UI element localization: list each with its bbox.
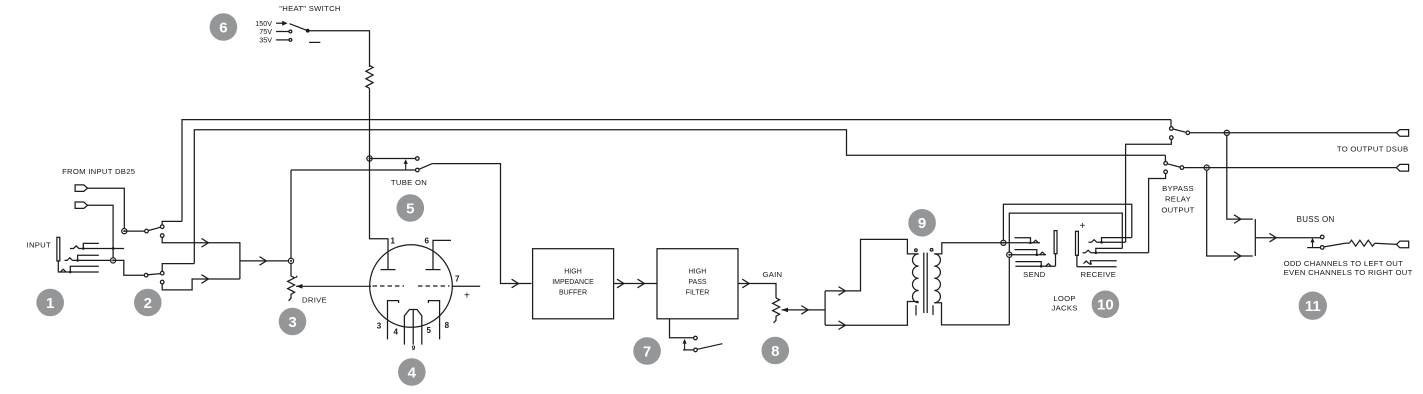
resistor R out [1349, 240, 1374, 246]
wire drive pot top to tube-on lower line [290, 170, 292, 258]
wire 2b lower throw signal path [162, 279, 240, 290]
buss-on actuator arrow [1312, 241, 1314, 248]
send jack tip normal stub [1015, 238, 1031, 243]
tube grid dashes left [373, 285, 405, 287]
heat switch 35V lead wire [276, 39, 289, 41]
tube-on switch lower contact [416, 168, 420, 172]
wire bypass top lower throw to receive tip [1126, 139, 1172, 242]
svg-text:INPUT: INPUT [27, 241, 51, 250]
svg-text:HIGH: HIGH [689, 268, 707, 275]
send jack tip contact line [1003, 242, 1040, 244]
connector DB25 pin 2 [75, 202, 87, 208]
svg-text:6: 6 [425, 237, 430, 246]
send jack tip caret [1033, 240, 1038, 243]
wire arm to resistor [1345, 242, 1349, 244]
arrow merge output [1269, 233, 1276, 242]
hpf switch arm [697, 344, 722, 350]
bypass top switch arm [1173, 129, 1186, 132]
svg-text:BUSS ON: BUSS ON [1297, 215, 1335, 224]
send jack ring contact line [1009, 254, 1046, 256]
wire bypass top output [1190, 132, 1397, 134]
relay switch 2a arm [148, 227, 160, 230]
relay switch 2b arm [148, 274, 161, 275]
svg-text:8: 8 [445, 321, 450, 330]
node A junction circle [122, 229, 127, 234]
wire 2a upper throw to bus 1 [162, 221, 182, 225]
wire bypass bottom lower throw to receive ring [1149, 174, 1166, 253]
buss-on switch arm [1324, 243, 1345, 247]
bypass bottom switch upper throw contact [1164, 162, 1168, 166]
node F junction circle [1204, 165, 1209, 170]
svg-text:7: 7 [455, 275, 460, 284]
numbered circle 9 [908, 209, 936, 237]
wire hpf to gain pot [738, 284, 776, 299]
arrow on merged signal [260, 257, 267, 266]
receive jack tip caret [1091, 240, 1096, 243]
transformer shield lead left [915, 305, 917, 315]
receive jack sleeve normal stub [1091, 261, 1117, 264]
wire bus1 down to bypass top switch [1170, 120, 1172, 127]
receive jack ring contact line [1083, 252, 1149, 254]
svg-text:BYPASS: BYPASS [1162, 184, 1194, 193]
receive jack body [1076, 231, 1079, 255]
receive jack tip normal stub [1102, 238, 1132, 243]
wire bus2 down to bypass bottom switch [1164, 155, 1166, 161]
tube heater (pins 4,5) [404, 310, 421, 345]
wire 2b upper throw to bus 2 [162, 264, 194, 272]
wire heater line to tube pin 1 [370, 159, 389, 270]
svg-text:7: 7 [643, 343, 651, 360]
send jack ring caret [1040, 252, 1045, 255]
heat switch 75V contact [289, 30, 292, 33]
numbered circle 7 [633, 337, 661, 365]
connector DB25 pin 1 [75, 185, 87, 192]
svg-text:4: 4 [394, 328, 399, 337]
tube-on actuator arrow [405, 163, 407, 170]
svg-text:5: 5 [406, 200, 414, 217]
wire bus 1 [182, 120, 1171, 222]
wire 2a lower throw signal path [162, 237, 240, 279]
resistor R heat [366, 66, 373, 89]
svg-text:TO OUTPUT DSUB: TO OUTPUT DSUB [1337, 144, 1409, 153]
relay switch 2a lower throw contact [160, 234, 164, 238]
svg-text:BUFFER: BUFFER [559, 289, 587, 296]
numbered circle 3 [279, 308, 307, 336]
svg-text:1: 1 [391, 237, 396, 246]
numbered circle 2 [134, 289, 162, 317]
input jack sleeve normal stub [70, 266, 99, 272]
wire drive wiper to tube grid [296, 285, 371, 287]
input jack body [57, 237, 60, 261]
wire splitter vertical [824, 291, 826, 325]
input jack sleeve contact caret [60, 269, 66, 272]
node B junction circle [111, 258, 116, 263]
wire secondary top to node C [934, 243, 1003, 254]
arrow 2 between blocks [638, 279, 645, 288]
wire hpf switch drop [670, 319, 694, 338]
svg-text:10: 10 [1097, 297, 1114, 314]
svg-text:IMPEDANCE: IMPEDANCE [552, 279, 594, 286]
transformer core [923, 253, 925, 313]
potentiometer GAIN [773, 298, 780, 323]
wire node D up and over to receive ring normal [1009, 213, 1122, 252]
arrow on primary top feed [839, 287, 846, 296]
wire heat switch to resistor [308, 31, 370, 67]
input jack sleeve contact dot [69, 271, 72, 274]
transformer primary phasing dot [915, 249, 918, 252]
svg-text:3: 3 [288, 314, 296, 331]
receive jack ring normal stub [1096, 248, 1123, 252]
tube-on switch upper line [370, 158, 416, 160]
bypass top switch upper throw contact [1170, 127, 1174, 131]
tube-on switch upper contact [416, 157, 420, 161]
wire merged signal to drive pot [240, 260, 289, 262]
receive jack tip contact line [1089, 241, 1126, 243]
arrow on 2b signal path [202, 275, 209, 284]
connector DSUB out pin 1 [1396, 130, 1408, 137]
numbered circle 6 [210, 13, 238, 41]
input jack ring normal stub [78, 255, 99, 260]
svg-text:ODD CHANNELS TO LEFT OUT: ODD CHANNELS TO LEFT OUT [1284, 259, 1404, 268]
drive pot top ccw tick [296, 276, 298, 278]
svg-text:5: 5 [427, 326, 432, 335]
relay switch 2a upper throw contact [160, 225, 164, 229]
svg-text:"HEAT" SWITCH: "HEAT" SWITCH [279, 4, 340, 13]
svg-text:1: 1 [46, 295, 54, 312]
send jack sleeve contact dot [1040, 265, 1043, 268]
svg-text:3: 3 [377, 322, 382, 331]
tube grid dashes right [418, 285, 450, 287]
svg-text:JACKS: JACKS [1052, 304, 1078, 313]
block HIGH PASS FILTER [657, 249, 738, 319]
svg-text:8: 8 [771, 343, 779, 360]
svg-text:11: 11 [1305, 298, 1321, 315]
tube-on switch arm [419, 164, 432, 170]
svg-text:TUBE ON: TUBE ON [391, 178, 427, 187]
svg-text:PASS: PASS [688, 279, 706, 286]
input jack tip contact dot [82, 247, 85, 250]
node drive junction circle [288, 258, 293, 263]
send jack sleeve line [1015, 265, 1055, 267]
input jack ring contact dot [76, 259, 79, 262]
receive jack sleeve line [1077, 266, 1117, 268]
numbered circle 10 [1092, 291, 1120, 319]
block HIGH IMPEDANCE BUFFER [533, 249, 614, 319]
hpf switch actuator arrow [684, 342, 686, 349]
svg-text:OUTPUT: OUTPUT [1161, 205, 1194, 214]
tube plate 2 (pin 6) [426, 269, 441, 271]
heat switch unused position dash [309, 41, 320, 43]
wire node E down to buss merge top [1227, 135, 1253, 219]
buss merge bar [1254, 219, 1256, 256]
arrow 1 between blocks [617, 279, 624, 288]
receive jack tip contact dot [1100, 241, 1103, 244]
tube-on junction circle [367, 156, 372, 161]
svg-text:6: 6 [219, 19, 227, 36]
arrow into buffer [512, 279, 519, 288]
connector DSUB out pin 2 [1396, 164, 1408, 171]
svg-text:EVEN CHANNELS TO RIGHT OUT: EVEN CHANNELS TO RIGHT OUT [1284, 268, 1413, 277]
relay switch 2b pole contact [144, 273, 148, 277]
input jack tip contact arm [70, 246, 124, 249]
input jack tip normal stub [83, 243, 99, 248]
node C junction circle [1001, 240, 1006, 245]
transformer shield lead right [932, 305, 934, 315]
transformer T1 primary winding [913, 254, 919, 303]
svg-text:4: 4 [408, 364, 417, 381]
buss-on switch lower contact [1320, 246, 1324, 250]
send jack ring contact dot [1036, 253, 1039, 256]
wire node B to switch 2b pole [113, 260, 144, 275]
receive jack body to sleeve [1076, 255, 1078, 266]
svg-text:FROM INPUT DB25: FROM INPUT DB25 [62, 167, 135, 176]
relay switch 2b upper throw contact [160, 271, 164, 275]
send jack sleeve caret [1046, 264, 1051, 267]
node D junction circle [1007, 252, 1012, 257]
numbered circle 1 [36, 289, 64, 317]
svg-text:SEND: SEND [1023, 270, 1046, 279]
buss-on switch lower stub [1307, 247, 1320, 249]
relay switch 2a pole wire [124, 230, 144, 232]
svg-text:9: 9 [412, 345, 416, 352]
numbered circle 11 [1299, 292, 1327, 320]
svg-text:RECEIVE: RECEIVE [1080, 270, 1116, 279]
wire merge output [1255, 237, 1320, 239]
relay switch 2b lower throw contact [160, 280, 164, 284]
heat switch 35V contact [289, 39, 292, 42]
tube pin 7 stub wire [452, 285, 480, 287]
arrow into merge bottom [1234, 252, 1241, 261]
send jack body to sleeve [1055, 254, 1057, 267]
wire DB25 pin2 down [88, 205, 114, 248]
wire junction down to pot [290, 264, 292, 277]
bypass bottom switch arm [1167, 164, 1180, 167]
transformer secondary phasing dot [930, 249, 933, 252]
hpf switch lower contact [694, 348, 698, 352]
bypass bottom switch pole contact [1180, 166, 1184, 170]
svg-text:FILTER: FILTER [686, 289, 710, 296]
send jack sleeve normal stub [1015, 262, 1041, 267]
wire DB25 pin2 to node B [112, 249, 114, 259]
tube cathode left (pin 3) [388, 301, 399, 340]
arrow into merge top [1234, 215, 1241, 224]
wire DB25 pin1 to node A [88, 188, 125, 228]
input jack ring contact arm [65, 258, 112, 261]
send jack tip contact dot [1029, 242, 1032, 245]
send jack ring normal stub [1015, 250, 1037, 255]
connector DSUB out pin 3 [1397, 241, 1409, 248]
svg-text:35V: 35V [259, 36, 272, 45]
receive jack sleeve contact dot [1089, 262, 1092, 265]
receive jack ring contact dot [1095, 252, 1098, 255]
receive jack ring caret [1085, 250, 1090, 253]
hpf switch upper contact [694, 336, 698, 340]
wire splitter bottom to primary [825, 302, 919, 326]
tube plate 1 (pin 1) [381, 269, 396, 271]
drive pot wiper arrow [296, 284, 303, 289]
svg-text:DRIVE: DRIVE [302, 295, 327, 304]
svg-text:+: + [1080, 221, 1086, 232]
tube-on switch lower line [291, 169, 416, 171]
wire gain wiper to transformer driver [782, 309, 826, 311]
wire splitter top to primary [825, 239, 919, 291]
node E junction circle [1224, 130, 1229, 135]
bypass top switch pole contact [1186, 131, 1190, 135]
svg-text:+: + [464, 291, 470, 302]
arrow after hpf [742, 279, 749, 288]
svg-text:GAIN: GAIN [762, 270, 782, 279]
wire bus 2 [194, 130, 1165, 264]
svg-text:9: 9 [918, 215, 926, 232]
svg-text:2: 2 [144, 295, 152, 312]
tube envelope circle U1 [370, 245, 453, 328]
numbered circle 8 [762, 337, 790, 365]
gain pot wiper arrow [782, 308, 789, 313]
input jack sleeve wire [58, 261, 99, 272]
wire bypass bottom output [1184, 167, 1397, 169]
potentiometer DRIVE [288, 276, 295, 301]
junction dot DB25-2 x contact1 [112, 247, 115, 250]
wire node C up and over to receive tip normal [1003, 204, 1131, 240]
heat switch 75V lead wire [276, 31, 289, 33]
arrow on primary bottom feed [839, 321, 846, 330]
heat switch 150V arrowhead [282, 21, 287, 26]
bypass bottom switch lower throw contact [1164, 170, 1168, 174]
arrow on 2a signal path [202, 239, 209, 248]
svg-text:RELAY: RELAY [1165, 195, 1191, 204]
numbered circle 5 [397, 194, 425, 222]
tube pin 6 lead [433, 240, 451, 269]
receive jack sleeve caret [1084, 261, 1089, 264]
tube heater center tap (pin 9) [412, 310, 414, 345]
wire node D down [1008, 257, 1010, 325]
transformer T1 secondary winding [934, 254, 940, 303]
bypass top switch lower throw contact [1170, 136, 1174, 140]
buss-on switch upper contact [1320, 235, 1324, 239]
svg-text:LOOP: LOOP [1053, 294, 1075, 303]
wire tube-on to buffer [432, 164, 531, 284]
wire node F down to buss merge bottom [1207, 170, 1253, 256]
svg-text:HIGH: HIGH [564, 268, 582, 275]
send jack body [1054, 231, 1057, 254]
wire resistor to output connector [1375, 243, 1397, 244]
relay switch 2a pole contact [145, 229, 149, 233]
heat switch 150V lead wire [276, 22, 282, 24]
wire resistor to tube-on junction [369, 88, 371, 158]
hpf switch lower stub [683, 349, 694, 351]
heat switch pole dot [306, 29, 310, 33]
arrow on gain wiper wire [801, 306, 808, 315]
heat switch arm [290, 24, 308, 31]
wire secondary bottom to loop return [934, 303, 1009, 325]
numbered circle 4 [398, 358, 426, 386]
wire buffer to high pass filter [614, 283, 657, 285]
tube cathode right (pin 8) [428, 301, 439, 340]
